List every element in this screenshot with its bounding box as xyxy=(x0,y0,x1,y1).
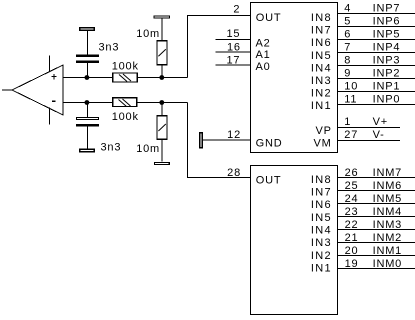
opamp power pin bottom xyxy=(49,108,51,125)
svg-text:5: 5 xyxy=(344,15,351,27)
wire pin 1 net V+ xyxy=(338,127,401,129)
supply terminal above C1 xyxy=(80,28,94,30)
svg-text:IN8: IN8 xyxy=(311,174,332,186)
svg-text:7: 7 xyxy=(344,41,351,53)
IC U1 box (top) xyxy=(251,3,338,153)
pin 12 terminal bar xyxy=(200,133,203,148)
wire pin 25 net INM6 xyxy=(338,190,415,192)
svg-text:A2: A2 xyxy=(256,37,271,49)
svg-text:INP1: INP1 xyxy=(373,80,401,92)
wire C1 lower stem xyxy=(86,63,88,78)
svg-text:11: 11 xyxy=(344,93,357,105)
wire pin 6 net INP5 xyxy=(338,39,415,41)
op-amp U1 xyxy=(12,65,63,115)
svg-text:10: 10 xyxy=(344,80,358,92)
node junction top-left xyxy=(85,75,90,80)
wire pin 21 net INM2 xyxy=(338,242,415,244)
svg-text:IN5: IN5 xyxy=(311,50,332,62)
svg-text:26: 26 xyxy=(345,167,359,179)
wire C2 lower stem xyxy=(86,127,88,149)
wire R4 upper stem xyxy=(161,103,163,116)
svg-text:IN2: IN2 xyxy=(311,250,332,262)
svg-text:IN6: IN6 xyxy=(311,37,332,49)
resistor R1 100k (top) xyxy=(113,73,137,82)
wire R3 upper stem xyxy=(161,18,163,40)
svg-text:V-: V- xyxy=(373,129,385,141)
svg-text:INM7: INM7 xyxy=(373,167,402,179)
svg-text:A1: A1 xyxy=(256,49,271,61)
resistor R3 10m (top) xyxy=(157,41,167,65)
svg-text:INP5: INP5 xyxy=(373,28,401,40)
svg-text:INP4: INP4 xyxy=(373,41,401,53)
svg-text:1: 1 xyxy=(344,116,351,128)
svg-text:IN5: IN5 xyxy=(311,212,332,224)
svg-text:IN7: IN7 xyxy=(311,25,332,37)
svg-text:20: 20 xyxy=(345,245,359,257)
svg-text:INM1: INM1 xyxy=(373,245,402,257)
wire pin 8 net INP3 xyxy=(338,65,415,67)
wire pin 26 net INM7 xyxy=(338,177,415,179)
wire R2 right to corner xyxy=(138,102,188,104)
supply terminal above R3 xyxy=(154,16,169,18)
svg-text:INP2: INP2 xyxy=(373,67,401,79)
svg-text:IN8: IN8 xyxy=(311,12,332,24)
wire pin 22 net INM3 xyxy=(338,229,415,231)
svg-text:VM: VM xyxy=(314,137,332,149)
svg-text:INM6: INM6 xyxy=(373,180,402,192)
svg-text:IN1: IN1 xyxy=(311,262,332,274)
svg-text:17: 17 xyxy=(226,55,240,67)
pin 12 wire xyxy=(203,139,251,141)
svg-text:IN6: IN6 xyxy=(311,199,332,211)
svg-text:19: 19 xyxy=(345,258,359,270)
svg-text:100k: 100k xyxy=(112,111,139,123)
wire pin 27 net V- xyxy=(338,140,401,142)
svg-text:3n3: 3n3 xyxy=(101,141,122,153)
svg-text:GND: GND xyxy=(256,138,283,150)
svg-text:IN7: IN7 xyxy=(311,187,332,199)
svg-text:IN3: IN3 xyxy=(311,75,332,87)
wire R4 lower stem xyxy=(161,140,163,162)
svg-text:VP: VP xyxy=(316,125,332,137)
svg-text:IN3: IN3 xyxy=(311,237,332,249)
svg-text:INP6: INP6 xyxy=(373,15,401,27)
svg-text:15: 15 xyxy=(226,28,240,40)
node junction bottom-right xyxy=(159,100,164,105)
wire pin 24 net INM5 xyxy=(338,203,415,205)
svg-text:IN4: IN4 xyxy=(311,62,332,74)
svg-text:16: 16 xyxy=(227,42,241,54)
svg-text:V+: V+ xyxy=(373,116,388,128)
svg-text:INM2: INM2 xyxy=(373,232,402,244)
svg-text:IN4: IN4 xyxy=(311,225,332,237)
svg-text:100k: 100k xyxy=(112,61,139,73)
svg-text:IN2: IN2 xyxy=(311,88,332,100)
pin 17 wire xyxy=(216,64,251,66)
wire pin 7 net INP4 xyxy=(338,52,415,54)
wire R1 right to corner xyxy=(138,77,188,79)
wire inverting input net xyxy=(63,102,112,104)
wire R3 lower stem xyxy=(161,66,163,78)
svg-text:INP7: INP7 xyxy=(373,2,401,14)
svg-text:INM4: INM4 xyxy=(373,206,402,218)
node junction bottom-left xyxy=(85,100,90,105)
svg-text:4: 4 xyxy=(344,2,351,14)
svg-text:INM3: INM3 xyxy=(373,219,402,231)
svg-text:INP3: INP3 xyxy=(373,54,401,66)
svg-text:23: 23 xyxy=(345,206,359,218)
svg-text:24: 24 xyxy=(345,193,359,205)
wire pin 5 net INP6 xyxy=(338,26,415,28)
svg-text:IN1: IN1 xyxy=(311,100,332,112)
svg-text:8: 8 xyxy=(344,54,351,66)
svg-text:INM5: INM5 xyxy=(373,193,402,205)
svg-text:28: 28 xyxy=(227,167,241,179)
svg-text:3n3: 3n3 xyxy=(99,41,120,53)
supply terminal below C2 xyxy=(80,149,94,151)
svg-text:27: 27 xyxy=(344,129,358,141)
wire noninverting input net xyxy=(63,77,112,79)
svg-text:21: 21 xyxy=(345,232,359,244)
svg-text:A0: A0 xyxy=(256,61,271,73)
wire C1 upper stem xyxy=(86,31,88,55)
svg-text:10m: 10m xyxy=(136,143,160,155)
wire opamp output xyxy=(2,89,12,91)
opamp power pin top xyxy=(49,56,51,72)
capacitor C2 3n3 (polarized) xyxy=(76,117,99,126)
supply terminal below R4 xyxy=(155,162,170,164)
svg-text:12: 12 xyxy=(227,129,241,141)
svg-text:6: 6 xyxy=(344,28,351,40)
wire bottom net dropper to IC2 pin 28 xyxy=(188,103,251,178)
svg-text:OUT: OUT xyxy=(256,12,282,24)
svg-text:10m: 10m xyxy=(136,28,160,40)
wire pin 10 net INP1 xyxy=(338,91,415,93)
svg-text:INP0: INP0 xyxy=(373,93,401,105)
wire pin 11 net INP0 xyxy=(338,104,415,106)
wire pin 23 net INM4 xyxy=(338,216,415,218)
svg-text:22: 22 xyxy=(345,219,359,231)
svg-text:9: 9 xyxy=(344,67,351,79)
wire C2 upper stem xyxy=(86,103,88,117)
resistor R2 100k (bottom) xyxy=(113,98,137,107)
capacitor C1 3n3 xyxy=(76,55,99,63)
wire pin 9 net INP2 xyxy=(338,78,415,80)
pin 15 wire xyxy=(216,39,251,41)
svg-text:2: 2 xyxy=(233,4,240,16)
svg-text:OUT: OUT xyxy=(256,174,282,186)
resistor R4 10m (bottom) xyxy=(157,116,167,140)
node junction top-right xyxy=(159,75,164,80)
wire pin 4 net INP7 xyxy=(338,13,415,15)
wire top net riser to IC1 pin 2 xyxy=(188,16,251,78)
IC U2 box (bottom) xyxy=(251,166,338,315)
pin 16 wire xyxy=(216,51,251,53)
wire pin 20 net INM1 xyxy=(338,255,415,257)
svg-text:25: 25 xyxy=(345,180,359,192)
wire pin 19 net INM0 xyxy=(338,268,415,270)
svg-text:INM0: INM0 xyxy=(373,258,402,270)
